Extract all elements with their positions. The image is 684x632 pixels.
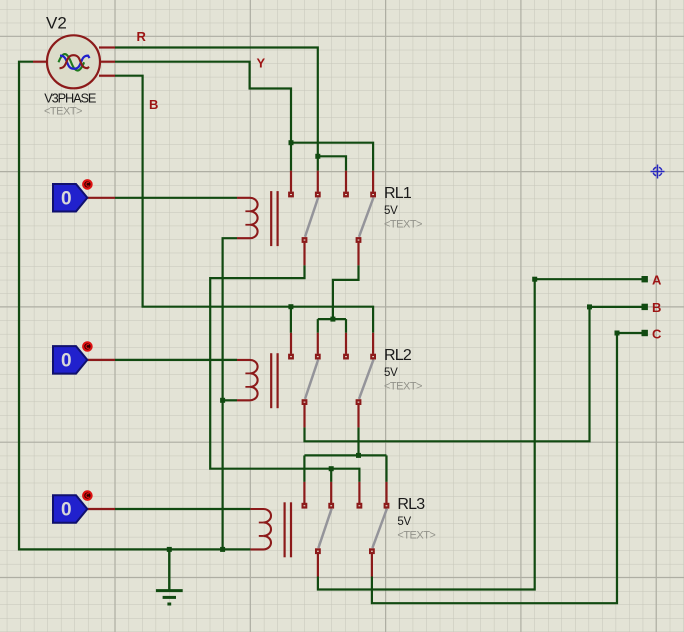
junction B-phase at RL2 poles (288, 304, 293, 309)
svg-text:B: B (652, 300, 661, 315)
junction Y-phase at RL1 poles (289, 140, 294, 145)
junction node B (587, 304, 592, 309)
label RL1 (384, 185, 422, 231)
relay RL3 (250, 482, 389, 577)
terminal B (642, 304, 648, 310)
svg-text:A: A (652, 273, 662, 288)
junction RL1-B1 feed to RL3 T2 (329, 466, 334, 471)
svg-text:R: R (137, 29, 147, 44)
svg-text:0: 0 (61, 351, 72, 372)
junction RL2 coil common (220, 398, 225, 403)
svg-text:0: 0 (61, 500, 72, 521)
wire relay coil common (RL1/RL2 coil bottoms to ground rail) (223, 238, 237, 549)
svg-text:5V: 5V (397, 516, 411, 528)
svg-text:0: 0 (61, 189, 72, 210)
source pins (33, 48, 115, 76)
wire B phase: source pin B to RL2 poles T1/T4 (115, 76, 373, 333)
terminal A (642, 276, 648, 282)
cursor crosshair (651, 165, 665, 179)
three-phase source V2 (33, 35, 115, 88)
svg-text:<TEXT>: <TEXT> (384, 219, 422, 231)
svg-text:V2: V2 (46, 14, 67, 33)
wire RL1 switched output 1 (B1) to RL3 poles T2/T3 (210, 265, 359, 482)
label RL3 (397, 496, 435, 542)
svg-text:V3PHASE: V3PHASE (44, 91, 96, 106)
svg-text:5V: 5V (384, 367, 398, 379)
junction ground tap (167, 547, 172, 552)
svg-text:RL1: RL1 (384, 185, 412, 202)
svg-text:RL3: RL3 (397, 496, 425, 513)
svg-text:B: B (149, 97, 158, 112)
logic state 1 (53, 180, 115, 211)
logic state 3 (53, 491, 115, 522)
junction RL2-B2 feed to RL3 T1/T4 (356, 453, 361, 458)
ground (156, 549, 183, 604)
svg-text:<TEXT>: <TEXT> (397, 530, 435, 542)
source sine wave blue (60, 56, 90, 69)
wire RL3 switched output 2 (B2) to terminal C (372, 333, 645, 603)
wire logic state 1 to RL1 coil (115, 197, 237, 199)
wire RL3 switched output 1 (B1) to terminal A (318, 279, 645, 589)
source body (47, 35, 100, 88)
wire RL2 switched output 2 (B2) to RL3 poles T1/T4 (304, 427, 386, 482)
junction node A (532, 277, 537, 282)
wire logic state 2 to RL2 coil (115, 359, 237, 361)
svg-text:<TEXT>: <TEXT> (384, 381, 422, 393)
relay RL1 (237, 171, 376, 266)
junction RL1-B2 feed to RL2 T2/T3 (330, 317, 335, 322)
label RL2 (384, 347, 422, 393)
source sine wave dark red (60, 55, 90, 68)
junction coil common at ground rail (220, 547, 225, 552)
svg-text:C: C (652, 326, 662, 341)
junction R-phase at RL1 poles (315, 154, 320, 159)
svg-text:5V: 5V (384, 205, 398, 217)
terminal C (642, 330, 648, 336)
svg-text:Y: Y (257, 56, 266, 71)
wire R phase: source pin R to RL1 poles T2/T3 (115, 48, 346, 171)
svg-text:RL2: RL2 (384, 347, 412, 364)
wire RL1 switched output 2 (B2) to RL2 poles T2/T3 (318, 265, 359, 333)
relay RL2 (237, 333, 376, 428)
logic state 2 (53, 342, 115, 373)
source sine wave green (59, 54, 85, 71)
wire RL2 switched output 1 (B1) to terminal B (305, 307, 645, 441)
junction node C (615, 331, 620, 336)
svg-text:<TEXT>: <TEXT> (44, 106, 82, 118)
wire logic state 3 to RL3 coil (115, 508, 250, 510)
wire neutral/ground net from source left pin (19, 62, 250, 550)
wire Y phase: source pin Y to RL1 poles T1/T4 (115, 62, 373, 171)
